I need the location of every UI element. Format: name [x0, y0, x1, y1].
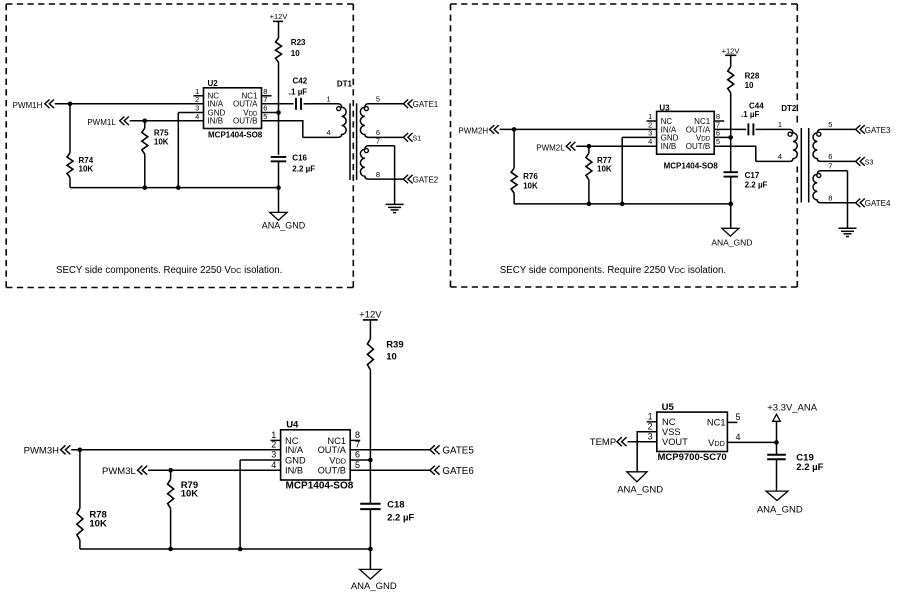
wire VDD node down to C17	[730, 137, 732, 172]
U2 pin 2 IN/A label	[195, 95, 224, 109]
node junction PWM2L/R77	[587, 144, 592, 149]
transformer DT2 secondary winding 7-8	[813, 161, 856, 202]
resistor R23 10	[276, 38, 307, 62]
svg-text:PWM3L: PWM3L	[102, 466, 136, 477]
wire U4 pin7 OUT/A to GATE5	[350, 449, 430, 451]
node PWM2L off-page	[536, 142, 575, 153]
svg-text:PWM2L: PWM2L	[536, 143, 565, 152]
svg-text:2: 2	[648, 421, 653, 431]
svg-text:U4: U4	[286, 420, 299, 431]
U2 pin 7 OUT/A label	[233, 95, 267, 109]
svg-text:ANA_GND: ANA_GND	[351, 581, 397, 592]
ground earth (DT1)	[386, 204, 404, 212]
U2 pin 1 NC stub	[194, 87, 220, 101]
svg-text:5: 5	[736, 412, 741, 422]
wire VDD node down to C16	[278, 113, 280, 155]
op-amp driver U4 MCP1404-SO8 body	[281, 420, 354, 492]
svg-text:IN/B: IN/B	[285, 466, 303, 476]
U3 pin 6 VDD label	[696, 128, 720, 142]
wire +12V to R23	[278, 21, 280, 38]
node junction PWM3L/R79	[168, 468, 173, 473]
wire U5 pin4 to VDD node	[727, 441, 776, 443]
svg-text:2.2 µF: 2.2 µF	[292, 165, 315, 174]
svg-text:S1: S1	[413, 135, 422, 142]
wire PWM1L to U2 pin4	[130, 120, 204, 122]
node rail junction R77	[587, 202, 592, 207]
svg-text:IN/A: IN/A	[285, 445, 304, 455]
svg-text:VSS: VSS	[662, 427, 681, 437]
svg-text:ANA_GND: ANA_GND	[711, 238, 752, 248]
svg-text:5: 5	[355, 460, 360, 470]
svg-text:7: 7	[355, 440, 360, 450]
svg-text:6: 6	[828, 152, 832, 161]
svg-text:3: 3	[648, 431, 653, 441]
svg-text:C42: C42	[293, 76, 308, 85]
svg-text:1: 1	[648, 412, 653, 422]
wire R23 to VDD node	[278, 62, 280, 112]
node GATE1 off-page	[403, 100, 438, 110]
node rail junction GND wire	[176, 185, 181, 190]
node ground rail junction at C18	[368, 547, 373, 552]
U5 pin 1 NC stub	[647, 412, 676, 428]
svg-text:C17: C17	[745, 171, 760, 180]
op-amp driver U2 MCP1404-SO8 body	[204, 79, 263, 139]
svg-text:2: 2	[195, 95, 199, 104]
capacitor C42 .1uF	[289, 76, 308, 110]
svg-text:4: 4	[648, 137, 652, 146]
wire U3 pin3 GND to rail	[622, 137, 656, 204]
svg-text:ANA_GND: ANA_GND	[262, 221, 306, 231]
temp sensor U5 MCP9700-SC70 body	[657, 402, 728, 463]
resistor R28 10	[728, 67, 760, 93]
wire rail junction to ANA_GND	[278, 188, 280, 213]
note: SECY side isolation text (top-right)	[500, 265, 726, 276]
wire VDD node down to C18	[369, 460, 371, 503]
wire U2 pin3 GND to rail	[178, 113, 203, 188]
wire PWM3L to U4 pin4	[148, 469, 281, 471]
wire U5 pin2 VSS to ANA_GND	[637, 432, 657, 472]
node junction PWM3H/R78	[78, 448, 83, 453]
U3 pin 1 NC stub	[647, 112, 673, 126]
svg-text:4: 4	[271, 460, 276, 470]
U4 pin 7 OUT/A label	[318, 440, 360, 456]
U5 pin 3 VOUT label	[648, 431, 689, 447]
transformer DT2 secondary winding 5-6	[813, 120, 856, 161]
svg-text:1: 1	[327, 95, 331, 104]
capacitor C16 2.2uF	[271, 153, 316, 173]
svg-text:R39: R39	[386, 340, 403, 351]
wire U2 pin5 OUT/B to DT1 pin4	[262, 121, 303, 138]
svg-text:+12V: +12V	[359, 310, 382, 321]
svg-text:NC1: NC1	[707, 417, 726, 427]
power +12V (block B)	[722, 46, 740, 55]
wire +12V to R28	[730, 55, 732, 66]
svg-text:C44: C44	[749, 101, 764, 110]
svg-text:DT2: DT2	[781, 104, 797, 113]
U5 pin 5 NC1 stub	[707, 412, 741, 427]
svg-text:4: 4	[327, 128, 331, 137]
node TEMP off-page	[590, 437, 627, 448]
svg-text:10: 10	[745, 81, 754, 90]
capacitor C19 2.2uF	[767, 453, 823, 473]
U4 pin 6 VDD label	[329, 450, 360, 466]
svg-text:10K: 10K	[79, 165, 94, 174]
svg-text:VDD: VDD	[329, 455, 346, 465]
svg-text:2.2 µF: 2.2 µF	[387, 513, 414, 524]
ground ANA_GND (block A)	[262, 212, 306, 230]
transformer DT1 core	[350, 103, 357, 180]
node GATE5 off-page	[430, 445, 474, 456]
node rail junction GND wire (B)	[620, 202, 625, 207]
svg-text:8: 8	[376, 170, 380, 179]
node ground rail junction at C17	[728, 202, 733, 207]
svg-text:R77: R77	[597, 156, 612, 165]
svg-text:R28: R28	[745, 72, 760, 81]
resistor R77 10K	[586, 146, 612, 204]
svg-text:GATE6: GATE6	[442, 466, 474, 477]
node GATE3 off-page	[856, 125, 891, 135]
svg-text:5: 5	[376, 95, 380, 104]
transformer DT1 label	[337, 79, 353, 88]
wire +3.3V_ANA to VDD node	[776, 421, 778, 442]
svg-text:10K: 10K	[154, 137, 169, 146]
U2 pin 4 IN/B label	[195, 112, 223, 126]
svg-text:IN/B: IN/B	[208, 117, 224, 126]
transformer DT1 secondary winding 7-8	[360, 137, 403, 180]
svg-text:OUT/A: OUT/A	[318, 445, 347, 455]
wire C17 to rail junction	[730, 177, 732, 204]
svg-text:7: 7	[263, 95, 267, 104]
ground ANA_GND (block C)	[351, 569, 397, 592]
svg-text:IN/A: IN/A	[208, 100, 224, 109]
svg-text:10K: 10K	[597, 165, 612, 174]
node rail junction R79	[168, 547, 173, 552]
wire C42 to DT1 pin1	[304, 103, 313, 105]
svg-text:10K: 10K	[181, 489, 199, 500]
wire rail junction to ANA_GND (block B)	[730, 204, 732, 228]
U4 pin 8 NC1 stub	[327, 430, 360, 446]
svg-text:.1 µF: .1 µF	[741, 110, 760, 119]
U4 pin 5 OUT/B label	[318, 460, 360, 476]
svg-text:7: 7	[376, 137, 380, 146]
svg-text:VDD: VDD	[696, 133, 711, 142]
svg-text:MCP1404-SO8: MCP1404-SO8	[286, 480, 354, 491]
node PWM3L off-page	[102, 466, 147, 477]
resistor R76 10K	[511, 129, 538, 204]
isolation boundary box (SECY side, top-right)	[451, 4, 798, 287]
capacitor C44 .1uF	[741, 101, 764, 135]
svg-text:8: 8	[828, 194, 832, 203]
svg-text:GND: GND	[285, 455, 306, 465]
transformer DT2 label	[781, 104, 797, 113]
wire ground rail (block B)	[514, 203, 731, 205]
wire R39 to VDD node (U4)	[369, 370, 371, 460]
svg-text:ANA_GND: ANA_GND	[757, 504, 803, 515]
svg-text:2.2 µF: 2.2 µF	[796, 462, 823, 473]
wire U3 pin6 to VDD node	[714, 136, 731, 138]
op-amp driver U3 MCP1404-SO8 body	[657, 103, 719, 170]
U5 pin 2 VSS label	[648, 421, 681, 437]
svg-text:MCP1404-SO8: MCP1404-SO8	[664, 162, 719, 171]
node GATE4 off-page	[856, 199, 891, 209]
node S1 off-page	[403, 133, 421, 142]
svg-text:10: 10	[386, 352, 397, 363]
wire ground rail (block A)	[70, 187, 279, 189]
wire U4 pin3 GND to rail	[240, 460, 281, 549]
svg-text:GND: GND	[661, 133, 679, 142]
wire C18 to rail junction	[369, 510, 371, 550]
svg-text:ANA_GND: ANA_GND	[617, 484, 663, 495]
wire DT1 pin7 to earth ground	[394, 146, 396, 205]
U4 pin 1 NC stub	[271, 430, 299, 446]
ground ANA_GND (U5 VSS)	[617, 472, 663, 496]
isolation boundary box (SECY side, top-left)	[6, 4, 353, 288]
svg-text:PWM2H: PWM2H	[458, 127, 488, 136]
wire C16 to ground rail	[278, 161, 280, 187]
wire DT2 pin7 to earth ground	[847, 171, 849, 229]
U2 pin 8 NC1 stub	[241, 87, 271, 101]
resistor R79 10K	[168, 470, 199, 549]
wire U3 pin5 OUT/B to DT2 pin4	[714, 146, 756, 161]
capacitor C17 2.2uF	[724, 171, 768, 189]
svg-text:GATE2: GATE2	[413, 176, 439, 185]
svg-text:10: 10	[291, 49, 300, 58]
node rail junction R75	[143, 185, 148, 190]
svg-text:5: 5	[716, 137, 720, 146]
svg-text:GATE4: GATE4	[865, 199, 891, 208]
svg-text:+3.3V_ANA: +3.3V_ANA	[767, 402, 818, 413]
svg-text:GATE5: GATE5	[442, 445, 474, 456]
node GATE2 off-page	[403, 175, 438, 185]
U3 pin 4 IN/B label	[648, 137, 676, 151]
svg-text:U2: U2	[208, 79, 219, 88]
U4 pin 4 IN/B label	[271, 460, 303, 476]
U3 pin 8 NC1 stub	[694, 112, 724, 126]
U3 pin 7 OUT/A label	[686, 120, 720, 134]
svg-text:+12V: +12V	[270, 12, 288, 21]
svg-text:U5: U5	[662, 402, 675, 413]
resistor R78 10K	[77, 450, 107, 549]
svg-text:R23: R23	[291, 38, 306, 47]
wire PWM3H to U4 pin2	[71, 449, 280, 451]
U4 pin 2 IN/A label	[271, 440, 304, 456]
svg-text:SECY side components. Require: SECY side components. Require 2250 VDC i…	[56, 265, 282, 276]
wire U4 pin5 OUT/B to GATE6	[350, 469, 430, 471]
svg-text:MCP1404-SO8: MCP1404-SO8	[208, 130, 263, 139]
svg-text:VOUT: VOUT	[662, 437, 688, 447]
wire C19 to ANA_GND	[776, 459, 778, 491]
svg-text:GATE1: GATE1	[413, 100, 439, 109]
svg-text:OUT/B: OUT/B	[233, 117, 257, 126]
node junction PWM1L/R75	[143, 119, 148, 124]
svg-text:NC: NC	[662, 417, 676, 427]
svg-text:OUT/B: OUT/B	[318, 466, 346, 476]
wire VDD node to C19	[776, 442, 778, 454]
transformer DT2 core	[801, 128, 808, 203]
svg-text:SECY side components. Require: SECY side components. Require 2250 VDC i…	[500, 265, 726, 276]
svg-text:C16: C16	[292, 153, 307, 162]
node PWM2H off-page	[458, 125, 498, 136]
svg-text:PWM1H: PWM1H	[13, 101, 43, 110]
node rail junction GND wire (C)	[238, 547, 243, 552]
wire +12V to R39	[369, 320, 371, 339]
U2 pin 5 OUT/B label	[233, 112, 267, 126]
transformer DT1 secondary winding 5-6	[360, 95, 403, 138]
wire PWM2H to U3 pin2	[500, 128, 657, 130]
svg-text:OUT/A: OUT/A	[233, 100, 258, 109]
svg-text:U3: U3	[659, 103, 670, 112]
node VDD U2 pin6 junction	[276, 110, 281, 115]
ground earth (DT2)	[839, 228, 857, 236]
svg-text:5: 5	[828, 120, 832, 129]
node PWM1L off-page	[87, 117, 129, 128]
svg-text:R75: R75	[154, 128, 169, 137]
svg-text:+12V: +12V	[722, 46, 740, 55]
node junction U5 VDD / C19	[774, 440, 779, 445]
resistor R74 10K	[67, 104, 94, 188]
node VDD U3 pin6 junction	[728, 135, 733, 140]
svg-text:TEMP: TEMP	[590, 437, 616, 448]
node VDD U4 pin6 junction	[368, 458, 373, 463]
note: SECY side isolation text (top-left)	[56, 265, 282, 276]
svg-text:MCP9700-SC70: MCP9700-SC70	[658, 452, 727, 463]
node PWM3H off-page	[24, 445, 71, 456]
svg-text:IN/B: IN/B	[661, 142, 677, 151]
node S3 off-page	[856, 157, 874, 166]
power +3.3V_ANA	[767, 402, 818, 421]
capacitor C18 2.2uF	[360, 500, 414, 524]
ground ANA_GND (C19)	[757, 491, 803, 515]
svg-text:R76: R76	[523, 172, 538, 181]
wire C44 to DT2 pin1	[756, 128, 764, 130]
svg-text:PWM1L: PWM1L	[87, 118, 116, 127]
svg-text:S3: S3	[865, 159, 874, 166]
svg-text:PWM3H: PWM3H	[24, 446, 60, 457]
wire ground rail (block C)	[80, 548, 371, 550]
U3 pin 5 OUT/B label	[686, 137, 720, 151]
node junction PWM2H/R76	[512, 127, 517, 132]
U3 pin 3 GND label	[648, 128, 678, 142]
power +12V (block A)	[270, 12, 288, 21]
ground ANA_GND (block B)	[711, 228, 752, 247]
resistor R39 10	[367, 339, 403, 370]
svg-text:.1 µF: .1 µF	[289, 88, 308, 97]
svg-text:4: 4	[736, 432, 741, 442]
U2 pin 3 GND label	[195, 104, 225, 118]
svg-text:7: 7	[828, 161, 832, 170]
transformer DT2 primary winding	[756, 120, 797, 161]
wire rail junction to ANA_GND (block C)	[369, 549, 371, 569]
transformer DT1 primary winding	[303, 95, 346, 138]
svg-text:10K: 10K	[523, 182, 538, 191]
svg-text:2: 2	[271, 440, 276, 450]
svg-text:C18: C18	[387, 500, 404, 511]
node GATE6 off-page	[430, 466, 474, 477]
svg-text:DT1: DT1	[337, 79, 353, 88]
wire U2 pin6 to VDD node	[262, 112, 279, 114]
wire TEMP to U5 pin3 VOUT	[628, 441, 657, 443]
resistor R75 10K	[142, 121, 169, 188]
node junction PWM1H/R74	[68, 102, 73, 107]
svg-text:2.2 µF: 2.2 µF	[745, 180, 768, 189]
node PWM1H off-page	[13, 100, 54, 111]
power +12V (block C)	[359, 310, 382, 321]
svg-text:4: 4	[778, 152, 782, 161]
svg-text:VDD: VDD	[708, 438, 725, 448]
svg-text:6: 6	[355, 450, 360, 460]
U2 pin 6 VDD label	[243, 104, 267, 118]
node ground rail junction at C16	[276, 185, 281, 190]
wire U2 pin7 OUT/A to C42	[262, 103, 294, 105]
wire PWM2L to U3 pin4	[576, 145, 656, 147]
U3 pin 2 IN/A label	[648, 120, 677, 134]
wire U3 pin7 OUT/A to C44	[714, 128, 746, 130]
wire U4 pin6 to VDD node	[350, 459, 370, 461]
svg-text:GATE3: GATE3	[865, 126, 891, 135]
svg-text:1: 1	[778, 120, 782, 129]
svg-text:10K: 10K	[89, 518, 107, 529]
U5 pin 4 VDD label	[708, 432, 740, 448]
U4 pin 3 GND label	[271, 450, 306, 466]
svg-text:OUT/B: OUT/B	[686, 142, 710, 151]
wire PWM1H to U2 pin2	[55, 103, 204, 105]
svg-text:3: 3	[271, 450, 276, 460]
wire R28 to VDD node	[730, 93, 732, 138]
